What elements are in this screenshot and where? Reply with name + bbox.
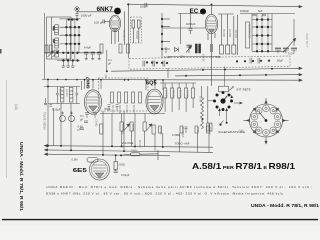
svg-text:INT. RETE: INT. RETE: [237, 88, 251, 92]
svg-text:10.000: 10.000: [228, 29, 232, 37]
svg-text:(1D): (1D): [14, 104, 18, 110]
svg-text:50.000: 50.000: [159, 127, 162, 135]
svg-text:1000 pF: 1000 pF: [81, 13, 92, 17]
svg-text:0,1: 0,1: [108, 58, 112, 62]
svg-text:5μF: 5μF: [258, 9, 263, 13]
svg-text:6Q5: 6Q5: [146, 81, 157, 87]
svg-text:50.000: 50.000: [59, 89, 62, 97]
svg-text:TRASF. MEDIA: TRASF. MEDIA: [43, 112, 47, 130]
svg-text:1MΩ: 1MΩ: [131, 149, 137, 153]
svg-text:6-8pF: 6-8pF: [84, 46, 91, 50]
svg-text:6NK7: 6NK7: [86, 76, 91, 88]
svg-text:10.000pF: 10.000pF: [181, 127, 184, 138]
svg-text:μF: μF: [108, 62, 112, 66]
svg-text:25.000: 25.000: [179, 90, 182, 98]
svg-text:O.M.: O.M.: [52, 26, 54, 31]
svg-text:50.000: 50.000: [135, 31, 139, 39]
svg-text:0.5MΩ: 0.5MΩ: [172, 133, 180, 137]
svg-text:1MΩ: 1MΩ: [119, 163, 125, 167]
svg-text:0.5M: 0.5M: [72, 158, 79, 162]
svg-text:50 Ω: 50 Ω: [198, 96, 201, 101]
svg-text:E938 e 6NK7 (98): 230 V pl., 8: E938 e 6NK7 (98): 230 V pl., 85 V car., …: [46, 191, 284, 195]
svg-text:UNDA - Modd. R 78/1, R 98/1: UNDA - Modd. R 78/1, R 98/1: [18, 142, 24, 211]
svg-text:10.000: 10.000: [202, 54, 205, 62]
svg-text:5 CV: 5 CV: [288, 52, 294, 56]
svg-text:50.000 Ω: 50.000 Ω: [122, 30, 126, 41]
svg-text:50.000: 50.000: [131, 124, 134, 132]
svg-text:10.000: 10.000: [65, 89, 68, 97]
svg-text:100pF: 100pF: [140, 5, 148, 9]
svg-text:50.000: 50.000: [111, 105, 114, 113]
svg-text:A.58/1 PER R78/1 E R98/1: A.58/1 PER R78/1 E R98/1: [192, 161, 295, 171]
svg-text:10.000: 10.000: [125, 105, 128, 113]
svg-text:6E5: 6E5: [73, 168, 87, 174]
svg-text:100 pF: 100 pF: [94, 21, 104, 25]
svg-text:O.C.: O.C.: [52, 39, 54, 44]
svg-text:μF: μF: [78, 128, 82, 132]
svg-text:EC: EC: [190, 8, 199, 15]
svg-text:50.000: 50.000: [234, 30, 238, 38]
svg-text:10.000: 10.000: [165, 90, 168, 98]
svg-text:0.15μF: 0.15μF: [52, 108, 61, 112]
svg-text:50.000: 50.000: [132, 105, 135, 113]
svg-text:UNDA - Modd. R 78/1, R 98/1: UNDA - Modd. R 78/1, R 98/1: [251, 203, 319, 209]
svg-text:0.01μF: 0.01μF: [121, 173, 130, 177]
svg-text:0.1MΩ: 0.1MΩ: [95, 119, 98, 127]
svg-text:50μF: 50μF: [277, 59, 284, 63]
svg-text:TONO +INF: TONO +INF: [175, 142, 190, 146]
svg-text:SILENZIATORE: SILENZIATORE: [218, 130, 245, 134]
svg-text:6 μF: 6 μF: [216, 55, 222, 59]
svg-text:45.000: 45.000: [222, 29, 226, 37]
svg-text:VOLUME: VOLUME: [122, 141, 134, 145]
svg-text:0.1MΩ: 0.1MΩ: [186, 90, 189, 98]
svg-text:6.0pF: 6.0pF: [164, 55, 171, 59]
svg-text:50.000: 50.000: [172, 90, 175, 98]
svg-text:1000pF: 1000pF: [186, 22, 196, 26]
svg-text:1MΩ: 1MΩ: [196, 127, 199, 132]
svg-text:50.000: 50.000: [138, 140, 141, 148]
svg-text:50pF: 50pF: [105, 107, 111, 111]
svg-text:1000pF: 1000pF: [240, 9, 249, 13]
svg-text:YEDI 5377: YEDI 5377: [305, 33, 309, 48]
svg-text:10.000pF: 10.000pF: [121, 124, 124, 135]
svg-text:μF: μF: [80, 117, 84, 121]
svg-text:UNDA RADIO - Mod. R78/1 e mod.: UNDA RADIO - Mod. R78/1 e mod. R98/1 - S…: [46, 185, 312, 189]
svg-text:CV: CV: [180, 55, 184, 59]
